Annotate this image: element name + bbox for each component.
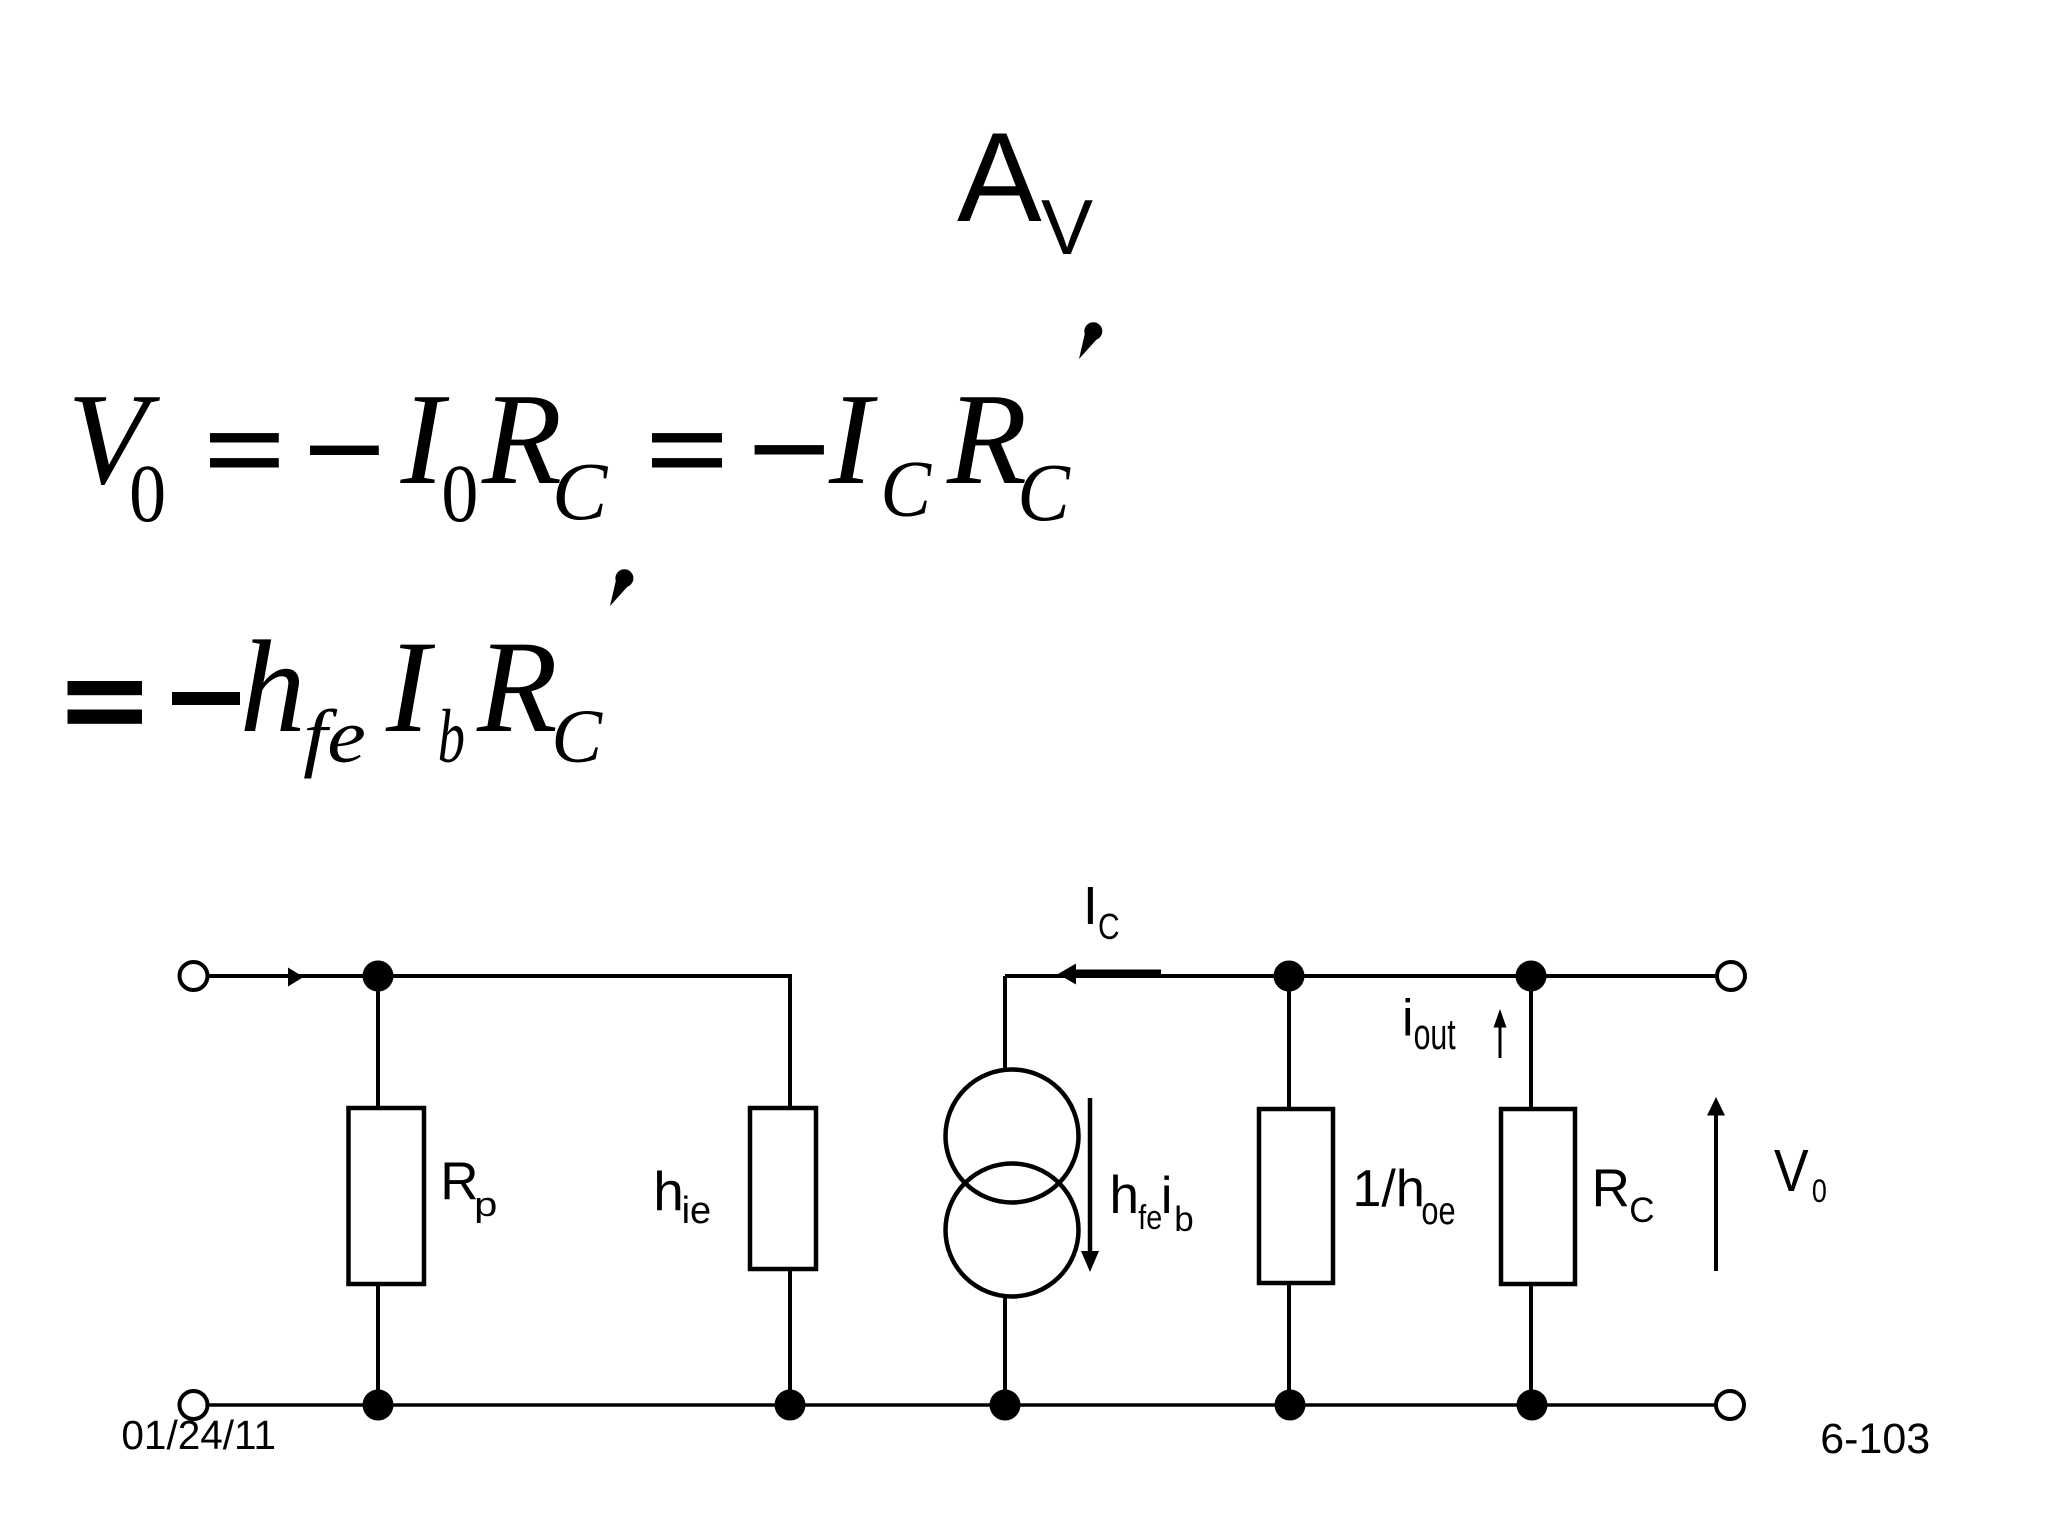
- svg-text:p: p: [474, 1187, 497, 1224]
- svg-text:h: h: [653, 1160, 684, 1222]
- svg-text:R: R: [1592, 1159, 1630, 1218]
- svg-text:C: C: [1629, 1191, 1654, 1230]
- wire: bottom rail: [208, 1403, 1717, 1407]
- node D junction top of RC: [1516, 961, 1547, 992]
- junction bottom of current source: [990, 1390, 1021, 1421]
- label iout: [1402, 990, 1456, 1060]
- svg-text:01/24/11: 01/24/11: [121, 1412, 276, 1458]
- wire: input to hie top corner: [208, 976, 791, 1108]
- label hfe ib: [1110, 1166, 1194, 1239]
- svg-text:R: R: [481, 367, 562, 512]
- svg-text:6-103: 6-103: [1820, 1415, 1930, 1463]
- V0 output voltage arrow: [1714, 1113, 1718, 1271]
- svg-text:1/h: 1/h: [1353, 1160, 1425, 1218]
- svg-text:V: V: [1041, 183, 1093, 271]
- label IC: [1083, 876, 1120, 948]
- svg-text:fe: fe: [303, 694, 366, 779]
- current source U1 circle 1: [946, 1070, 1079, 1203]
- junction bottom of hie: [775, 1390, 806, 1421]
- wire: current source top riser: [1003, 976, 1007, 1072]
- svg-text:0: 0: [441, 447, 478, 539]
- resistor 1/hoe: [1259, 1109, 1333, 1283]
- current source U1 circle 2: [946, 1164, 1079, 1297]
- svg-text:V: V: [1774, 1138, 1809, 1204]
- label 1/hoe: [1353, 1160, 1456, 1233]
- equation line 1: V0 = -I0RC = -ICRC': [67, 367, 1070, 539]
- svg-text:C: C: [551, 695, 603, 779]
- svg-text:C: C: [880, 444, 932, 533]
- svg-text:R: R: [946, 367, 1027, 512]
- svg-text:A: A: [957, 106, 1042, 248]
- svg-text:b: b: [438, 695, 465, 779]
- resistor RC: [1501, 1109, 1575, 1284]
- current source direction arrow: [1088, 1098, 1093, 1252]
- svg-text:h: h: [1110, 1166, 1139, 1225]
- node C junction top of 1/hoe: [1274, 961, 1305, 992]
- svg-text:C: C: [1098, 907, 1120, 947]
- wire: hie bottom to rail: [788, 1269, 792, 1405]
- equation line 1 prime mark: [1079, 327, 1102, 360]
- label RC: [1592, 1159, 1655, 1230]
- resistor Rp: [349, 1108, 425, 1284]
- wire: 1/hoe bottom to rail: [1287, 1283, 1291, 1405]
- junction bottom of RC: [1517, 1390, 1548, 1421]
- svg-text:C: C: [552, 445, 609, 537]
- title AV: [957, 106, 1093, 271]
- svg-text:ie: ie: [682, 1190, 712, 1232]
- input terminal top-left: [180, 962, 208, 990]
- svg-text:I: I: [828, 367, 878, 512]
- label Rp: [440, 1152, 497, 1224]
- input current arrow: [288, 968, 304, 987]
- junction bottom of Rp: [363, 1390, 394, 1421]
- svg-text:0: 0: [129, 447, 166, 539]
- node B junction top of Rp: [363, 961, 394, 992]
- output terminal bottom-right: [1716, 1391, 1744, 1419]
- wire: junction down to 1/hoe: [1287, 976, 1291, 1109]
- wire: RC bottom to rail: [1529, 1284, 1533, 1405]
- wire: junction down to RC: [1529, 976, 1533, 1109]
- svg-text:I: I: [385, 613, 436, 760]
- label hie: [653, 1160, 711, 1232]
- svg-text:b: b: [1174, 1200, 1193, 1239]
- equation line 2: = -hfeIbRC': [68, 613, 604, 779]
- junction bottom of 1/hoe: [1275, 1390, 1306, 1421]
- svg-text:h: h: [240, 613, 306, 760]
- iout arrow: [1499, 1026, 1502, 1058]
- wire: junction down to Rp: [376, 976, 380, 1108]
- svg-text:R: R: [440, 1152, 478, 1211]
- wire: top rail right section: [1005, 974, 1717, 978]
- wire: Rp bottom to rail: [376, 1284, 380, 1405]
- ground terminal bottom-left: [180, 1391, 208, 1419]
- svg-text:i: i: [1402, 990, 1414, 1048]
- equation line 2 prime mark: [610, 574, 633, 607]
- IC current arrow: [1076, 970, 1161, 977]
- svg-text:C: C: [1017, 446, 1071, 538]
- svg-text:oe: oe: [1421, 1190, 1455, 1233]
- svg-text:i: i: [1161, 1167, 1173, 1225]
- svg-text:0: 0: [1812, 1174, 1827, 1210]
- svg-text:fe: fe: [1138, 1199, 1162, 1237]
- svg-text:out: out: [1414, 1011, 1456, 1060]
- svg-text:I: I: [1083, 876, 1098, 936]
- resistor hie: [750, 1108, 816, 1269]
- wire: current source bottom to rail: [1003, 1296, 1007, 1405]
- output terminal top-right: [1717, 962, 1745, 990]
- label V0: [1774, 1138, 1827, 1210]
- svg-text:R: R: [476, 613, 558, 760]
